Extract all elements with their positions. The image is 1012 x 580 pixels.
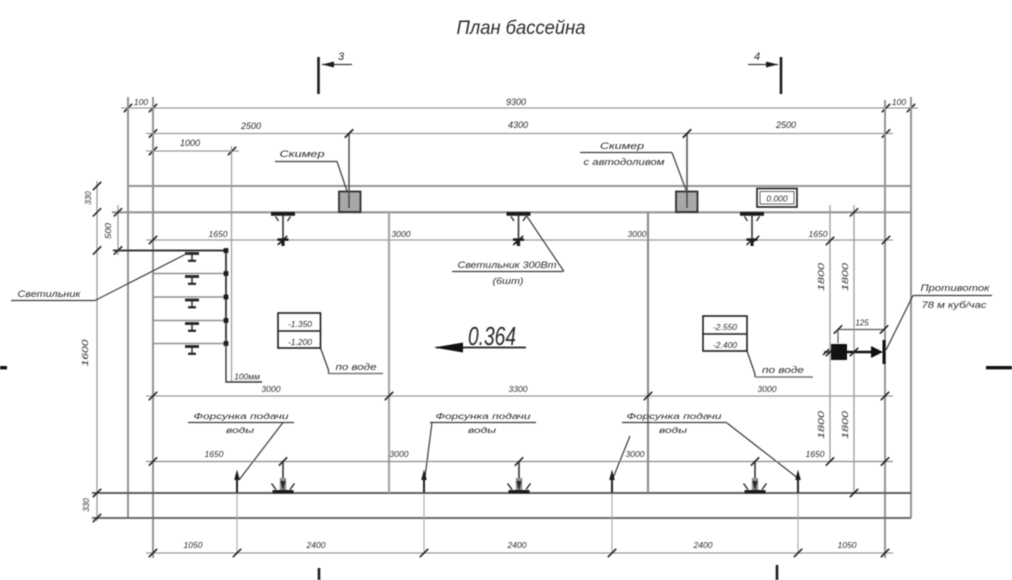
svg-text:воды: воды — [226, 425, 255, 435]
svg-text:100: 100 — [892, 97, 906, 107]
outer wall top (horizontal) — [128, 185, 911, 187]
svg-text:по воде: по воде — [762, 365, 804, 375]
inlet nozzle arrow 1 — [234, 470, 240, 554]
svg-text:1050: 1050 — [838, 540, 857, 550]
dimension chain 1650/3000/3000/1650 (upper) — [146, 229, 893, 244]
svg-text:3000: 3000 — [758, 384, 777, 394]
svg-text:3000: 3000 — [390, 449, 409, 459]
underwater light bottom 1 — [272, 462, 295, 493]
slope arrow 0.364 — [434, 321, 526, 353]
svg-text:3000: 3000 — [392, 229, 411, 239]
label Форсунка подачи воды 1 with leader — [188, 411, 294, 480]
underwater light top 1 — [271, 212, 295, 246]
svg-text:1650: 1650 — [806, 449, 825, 459]
dimension 125 (counterflow offset) — [834, 319, 888, 344]
svg-text:1650: 1650 — [209, 229, 228, 239]
right dimension line x=830 (1800/1800) — [817, 205, 834, 466]
inner wall right (vertical) — [884, 100, 886, 558]
svg-text:1800: 1800 — [841, 262, 850, 291]
svg-text:100мм: 100мм — [234, 372, 260, 382]
svg-text:78 м куб/час: 78 м куб/час — [922, 300, 988, 310]
outer wall right (vertical) — [910, 97, 912, 518]
elevation box 0.000 — [757, 189, 797, 208]
svg-text:2400: 2400 — [306, 540, 326, 550]
dimension chain 100/9300/100 (top) — [121, 97, 918, 112]
svg-text:Форсунка подачи: Форсунка подачи — [436, 411, 531, 421]
svg-text:1800: 1800 — [817, 410, 826, 439]
svg-text:-1.350: -1.350 — [288, 319, 312, 329]
dimension chain 2500/4300/2500 — [146, 120, 893, 138]
svg-text:2500: 2500 — [240, 121, 261, 131]
inner wall top / waterline (horizontal) — [112, 211, 911, 213]
elevation box -2.550/-2.400 with leader and по воде — [703, 316, 813, 377]
svg-text:Форсунка подачи: Форсунка подачи — [627, 411, 722, 421]
label Форсунка подачи воды 3 with two leaders — [613, 411, 799, 479]
svg-text:4300: 4300 — [508, 120, 528, 130]
svg-text:0.364: 0.364 — [468, 321, 516, 351]
svg-text:2400: 2400 — [693, 540, 713, 550]
axis dash left edge — [0, 366, 7, 369]
dimension chain 1650/3000/3000/1650 (lower) — [146, 449, 893, 466]
extension line at x=232 — [231, 146, 233, 382]
svg-text:Форсунка подачи: Форсунка подачи — [194, 411, 289, 421]
svg-text:-2.400: -2.400 — [713, 340, 737, 350]
svg-text:-1.200: -1.200 — [288, 337, 312, 347]
right dimension line x=854 (1800/1800) — [841, 205, 858, 497]
svg-text:0.000: 0.000 — [766, 194, 788, 204]
svg-text:330: 330 — [82, 498, 91, 512]
svg-text:воды: воды — [468, 425, 497, 435]
skimmer 2 locating line — [683, 129, 691, 208]
svg-text:по воде: по воде — [336, 362, 377, 372]
outer wall left (vertical) — [127, 97, 129, 518]
svg-text:1650: 1650 — [205, 449, 224, 459]
stair tread 2 — [153, 273, 226, 275]
svg-text:с автодоливом: с автодоливом — [584, 157, 665, 167]
left dimension line x=97 (330/1600/330) — [80, 181, 101, 522]
section mark 3 (bottom) — [318, 568, 321, 580]
pool floor joint line 1 (vertical x=389) — [388, 212, 390, 493]
dimension chain 1050/2400/2400/2400/1050 (bottom) — [146, 540, 893, 557]
stairs top edge — [113, 250, 226, 252]
stair tread marks — [185, 252, 199, 355]
section mark 4 (bottom) — [776, 565, 779, 580]
svg-text:Скимер: Скимер — [600, 141, 644, 151]
skimmer 1 (box on top wall) — [339, 192, 361, 213]
elevation box -1.350/-1.200 with leader and по воде — [278, 313, 383, 374]
svg-text:4: 4 — [754, 51, 760, 63]
svg-text:Противоток: Противоток — [921, 283, 991, 293]
svg-text:2500: 2500 — [775, 120, 796, 130]
section mark 3 (top) — [319, 51, 353, 94]
svg-text:100: 100 — [134, 97, 148, 107]
svg-text:-2.550: -2.550 — [713, 322, 737, 332]
label Светильник 300Вт (6шт) with leader — [452, 215, 564, 286]
svg-text:9300: 9300 — [506, 97, 526, 107]
svg-text:3000: 3000 — [626, 449, 645, 459]
label Скимер с автодоливом with leader — [580, 141, 686, 190]
label Форсунка подачи воды 2 with leader — [425, 411, 536, 477]
label Светильник with leader — [11, 253, 189, 301]
svg-text:3000: 3000 — [262, 384, 281, 394]
outer wall bottom (horizontal) — [92, 517, 911, 519]
svg-text:1650: 1650 — [809, 229, 828, 239]
left dimension 500 — [104, 205, 122, 255]
pool floor joint line 2 (vertical x=648) — [647, 212, 649, 493]
svg-text:1000: 1000 — [180, 138, 200, 148]
svg-text:1800: 1800 — [841, 410, 850, 439]
svg-text:воды: воды — [659, 425, 688, 435]
skimmer 2 (box on top wall) — [676, 192, 698, 213]
svg-text:(6шт): (6шт) — [493, 276, 524, 286]
inlet nozzle arrow 3 — [609, 470, 615, 554]
svg-text:2400: 2400 — [507, 540, 527, 550]
counterflow unit (black box) — [831, 344, 847, 360]
drain leader 100мм — [226, 344, 262, 383]
stair tread 5 (bottom) — [153, 343, 226, 345]
svg-text:1600: 1600 — [80, 339, 90, 366]
inlet nozzle arrow 2 — [421, 470, 427, 554]
stair edge end markers — [224, 248, 229, 346]
svg-text:500: 500 — [104, 222, 113, 239]
skimmer 1 locating line — [345, 129, 353, 208]
section mark 4 (top) — [748, 51, 781, 94]
svg-text:1800: 1800 — [817, 262, 826, 291]
underwater light bottom 3 — [744, 462, 767, 493]
svg-text:125: 125 — [855, 319, 869, 328]
axis dash right edge — [986, 366, 1012, 369]
label Противоток 78 м куб/час with leader — [886, 283, 992, 350]
stair tread 4 — [153, 320, 226, 322]
underwater light bottom 2 — [508, 462, 531, 493]
svg-text:Светильник 300Вт: Светильник 300Вт — [458, 260, 558, 270]
svg-text:330: 330 — [84, 191, 93, 205]
underwater light top 2 — [507, 212, 531, 246]
svg-text:Скимер: Скимер — [280, 149, 325, 159]
counterflow jet arrow — [823, 340, 884, 364]
dimension chain 3000/3300/3000 (middle) — [146, 384, 893, 400]
stairs right edge — [225, 251, 227, 344]
dimension 1000 (stairs width) — [146, 138, 239, 155]
svg-text:Светильник: Светильник — [18, 289, 82, 300]
underwater light top 3 — [740, 212, 764, 246]
label Скимер with leader — [275, 149, 347, 191]
svg-text:План бассейна: План бассейна — [457, 18, 586, 39]
inner wall bottom (horizontal) — [92, 492, 911, 494]
svg-text:3: 3 — [338, 51, 345, 63]
inner wall left (vertical) — [152, 97, 154, 558]
svg-text:3300: 3300 — [509, 384, 528, 394]
inlet nozzle arrow 4 — [795, 470, 801, 554]
stair tread 3 — [153, 296, 226, 298]
svg-text:1050: 1050 — [184, 540, 203, 550]
svg-text:3000: 3000 — [628, 229, 647, 239]
